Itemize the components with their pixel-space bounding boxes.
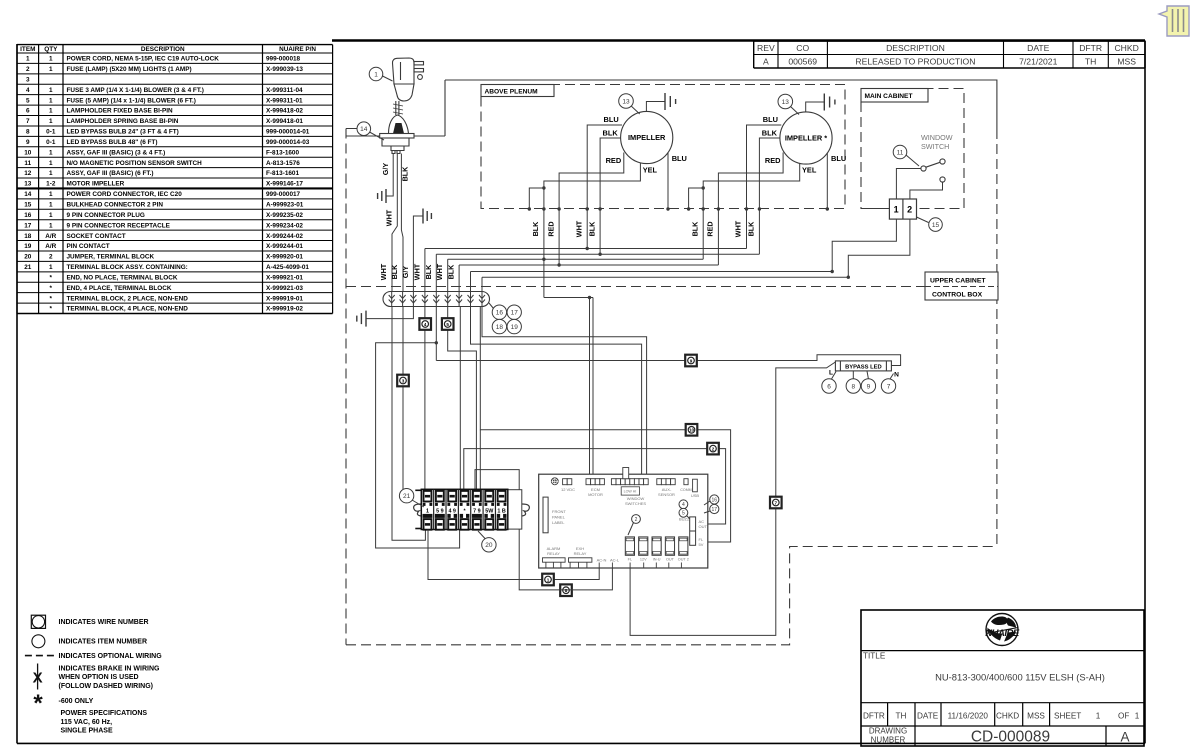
svg-text:RED: RED (706, 221, 715, 236)
svg-text:13: 13 (622, 98, 630, 105)
svg-text:INDICATES OPTIONAL WIRING: INDICATES OPTIONAL WIRING (59, 653, 163, 660)
svg-text:POWER SPECIFICATIONS: POWER SPECIFICATIONS (61, 710, 148, 717)
svg-text:1: 1 (49, 56, 53, 63)
svg-text:CONTROL BOX: CONTROL BOX (932, 292, 983, 299)
svg-text:1: 1 (49, 97, 53, 104)
svg-text:COMM: COMM (680, 488, 691, 492)
svg-text:LED BYPASS BULB 24" (3 FT & 4: LED BYPASS BULB 24" (3 FT & 4 FT) (67, 129, 179, 136)
svg-text:IN-U: IN-U (653, 558, 661, 562)
svg-text:9 PIN CONNECTOR RECEPTACLE: 9 PIN CONNECTOR RECEPTACLE (67, 222, 171, 229)
svg-text:17: 17 (24, 222, 32, 229)
svg-text:A/R: A/R (45, 233, 56, 240)
svg-text:NUAIRE P/N: NUAIRE P/N (279, 46, 316, 53)
svg-text:ITEM: ITEM (20, 46, 35, 53)
svg-text:CO: CO (796, 43, 809, 53)
svg-text:5: 5 (446, 322, 449, 327)
svg-text:BULKHEAD CONNECTOR 2 PIN: BULKHEAD CONNECTOR 2 PIN (67, 201, 164, 208)
svg-text:5: 5 (26, 97, 30, 104)
svg-text:17: 17 (511, 310, 519, 317)
svg-text:13: 13 (782, 99, 790, 106)
svg-text:NUMBER: NUMBER (871, 736, 906, 745)
svg-text:X-999039-13: X-999039-13 (266, 66, 303, 73)
svg-text:ASSY, GAF III (BASIC) (3 & 4 F: ASSY, GAF III (BASIC) (3 & 4 FT.) (67, 149, 166, 156)
svg-text:CD-000089: CD-000089 (971, 729, 1050, 746)
svg-text:1: 1 (1096, 711, 1101, 720)
svg-text:AC-N: AC-N (597, 558, 607, 563)
svg-text:OUT 2: OUT 2 (678, 558, 689, 562)
svg-text:CHKD: CHKD (996, 711, 1019, 720)
svg-text:DFTR: DFTR (863, 711, 885, 720)
svg-text:1: 1 (49, 118, 53, 125)
svg-text:2: 2 (635, 517, 638, 523)
svg-text:BLK: BLK (602, 129, 618, 138)
svg-text:A-999923-01: A-999923-01 (266, 201, 304, 208)
svg-text:N: N (894, 372, 899, 379)
svg-text:OF: OF (1118, 711, 1129, 720)
svg-text:ASSY, GAF III (BASIC) (6 FT.): ASSY, GAF III (BASIC) (6 FT.) (67, 170, 154, 177)
svg-text:1: 1 (374, 71, 378, 78)
svg-text:1: 1 (1135, 711, 1140, 720)
svg-text:6: 6 (26, 108, 30, 115)
svg-text:IMPELLER: IMPELLER (628, 133, 666, 142)
svg-text:7: 7 (887, 383, 891, 390)
svg-text:999-000017: 999-000017 (266, 191, 301, 198)
svg-text:MOTOR IMPELLER: MOTOR IMPELLER (67, 181, 125, 188)
svg-text:-600 ONLY: -600 ONLY (59, 698, 94, 705)
svg-text:1 B: 1 B (497, 508, 505, 514)
svg-text:LED BYPASS BULB 48" (6 FT): LED BYPASS BULB 48" (6 FT) (67, 139, 158, 146)
svg-text:1: 1 (49, 149, 53, 156)
svg-text:SENSOR: SENSOR (658, 492, 675, 497)
svg-text:7: 7 (26, 118, 30, 125)
svg-text:MSS: MSS (1027, 711, 1045, 720)
svg-text:11/16/2020: 11/16/2020 (948, 711, 989, 720)
svg-text:7: 7 (775, 500, 778, 505)
svg-text:USB: USB (691, 493, 700, 498)
svg-text:4: 4 (682, 502, 685, 508)
svg-text:10: 10 (24, 149, 32, 156)
svg-text:1-2: 1-2 (46, 181, 56, 188)
svg-text:SWITCH: SWITCH (921, 142, 949, 151)
svg-text:X-999919-01: X-999919-01 (266, 295, 303, 302)
svg-text:END, 4 PLACE, TERMINAL BLOCK: END, 4 PLACE, TERMINAL BLOCK (67, 285, 172, 292)
svg-text:A: A (763, 57, 769, 67)
svg-text:RED: RED (765, 156, 781, 165)
svg-text:1: 1 (26, 56, 30, 63)
svg-text:TERMINAL BLOCK, 4 PLACE, NON-E: TERMINAL BLOCK, 4 PLACE, NON-END (67, 306, 189, 313)
svg-text:X-999235-02: X-999235-02 (266, 212, 303, 219)
svg-text:LABEL: LABEL (552, 520, 565, 525)
svg-text:G/Y: G/Y (381, 163, 390, 176)
svg-text:RELAY: RELAY (547, 551, 560, 556)
svg-text:3: 3 (26, 76, 30, 83)
svg-text:POWER CORD, NEMA 5-15P, IEC C1: POWER CORD, NEMA 5-15P, IEC C19 AUTO-LOC… (67, 56, 220, 63)
svg-text:21: 21 (403, 493, 411, 500)
svg-text:3: 3 (402, 378, 405, 383)
svg-text:F-813-1600: F-813-1600 (266, 149, 299, 156)
svg-text:2: 2 (712, 447, 715, 452)
svg-text:4: 4 (424, 322, 427, 327)
svg-text:12 VDC: 12 VDC (561, 487, 575, 492)
svg-text:9: 9 (867, 383, 871, 390)
svg-text:A-425-4099-01: A-425-4099-01 (266, 264, 309, 271)
svg-text:DATE: DATE (1027, 43, 1050, 53)
svg-text:21: 21 (24, 264, 32, 271)
svg-text:11: 11 (897, 149, 904, 156)
svg-text:BLK: BLK (762, 129, 778, 138)
svg-text:RELAY: RELAY (574, 551, 587, 556)
svg-text:6: 6 (827, 383, 831, 390)
svg-text:*: * (33, 690, 43, 717)
svg-text:DATE: DATE (917, 711, 939, 720)
svg-text:POWER CORD CONNECTOR, IEC C20: POWER CORD CONNECTOR, IEC C20 (67, 191, 183, 198)
svg-text:INDICATES BRAKE IN WIRING: INDICATES BRAKE IN WIRING (59, 666, 161, 673)
svg-text:BLU: BLU (763, 115, 778, 124)
svg-text:FRONT: FRONT (552, 509, 566, 514)
svg-text:X-999311-04: X-999311-04 (266, 87, 303, 94)
svg-text:FUSE 3 AMP (1/4 X 1-1/4) BLOWE: FUSE 3 AMP (1/4 X 1-1/4) BLOWER (3 & 4 F… (67, 87, 204, 94)
svg-text:16: 16 (24, 212, 32, 219)
svg-text:WHT: WHT (384, 209, 393, 226)
svg-text:SINGLE PHASE: SINGLE PHASE (61, 728, 113, 735)
svg-text:9 PIN CONNECTOR PLUG: 9 PIN CONNECTOR PLUG (67, 212, 145, 219)
svg-text:N/O MAGNETIC POSITION SENSOR S: N/O MAGNETIC POSITION SENSOR SWITCH (67, 160, 203, 167)
svg-text:OUT: OUT (666, 558, 675, 562)
svg-text:13: 13 (24, 181, 32, 188)
svg-text:INDICATES ITEM NUMBER: INDICATES ITEM NUMBER (59, 639, 148, 646)
svg-text:BLK: BLK (390, 264, 399, 280)
svg-text:7 9: 7 9 (473, 508, 481, 514)
svg-text:8: 8 (565, 588, 568, 593)
svg-text:BYPASS LED: BYPASS LED (845, 364, 882, 370)
svg-text:F-813-1601: F-813-1601 (266, 170, 299, 177)
svg-text:G/Y: G/Y (401, 266, 410, 279)
svg-text:X: X (33, 670, 43, 687)
svg-text:18: 18 (24, 233, 32, 240)
svg-text:FUSE (LAMP) (5X20 MM) LIGHTS (: FUSE (LAMP) (5X20 MM) LIGHTS (1 AMP) (67, 66, 192, 73)
svg-text:BLK: BLK (447, 264, 456, 280)
svg-text:1: 1 (49, 66, 53, 73)
svg-text:WHT: WHT (435, 263, 444, 280)
svg-text:BLU: BLU (603, 115, 618, 124)
svg-text:WHEN OPTION IS USED: WHEN OPTION IS USED (59, 674, 139, 681)
svg-text:WHT: WHT (379, 263, 388, 280)
svg-text:NU-813-300/400/600 115V ELSH (: NU-813-300/400/600 115V ELSH (S-AH) (935, 672, 1105, 683)
svg-text:YEL: YEL (643, 166, 658, 175)
svg-text:PIN CONTACT: PIN CONTACT (67, 243, 110, 250)
svg-text:5W: 5W (485, 508, 494, 514)
svg-text:4 9: 4 9 (448, 508, 456, 514)
svg-text:15: 15 (932, 222, 940, 229)
svg-text:A-813-1576: A-813-1576 (266, 160, 300, 167)
svg-text:18: 18 (496, 324, 504, 331)
svg-text:A/R: A/R (45, 243, 56, 250)
svg-text:TERMINAL BLOCK, 2 PLACE, NON-E: TERMINAL BLOCK, 2 PLACE, NON-END (67, 295, 189, 302)
svg-text:1: 1 (49, 264, 53, 271)
svg-text:RELEASED TO PRODUCTION: RELEASED TO PRODUCTION (855, 57, 975, 67)
svg-text:1: 1 (49, 201, 53, 208)
svg-text:RED: RED (606, 156, 622, 165)
svg-text:CHKD: CHKD (1114, 43, 1138, 53)
svg-text:DFTR: DFTR (1079, 43, 1102, 53)
svg-text:8: 8 (851, 383, 855, 390)
svg-text:NUAIRE: NUAIRE (985, 628, 1020, 639)
svg-text:FUSE (5 AMP) (1/4 x 1-1/4) BLO: FUSE (5 AMP) (1/4 x 1-1/4) BLOWER (6 FT.… (67, 97, 196, 104)
svg-text:10: 10 (689, 428, 695, 433)
svg-text:0-1: 0-1 (46, 129, 56, 136)
svg-text:BLU: BLU (672, 154, 687, 163)
svg-text:X-999920-01: X-999920-01 (266, 254, 303, 261)
svg-text:FL: FL (628, 558, 632, 562)
svg-text:X-999921-03: X-999921-03 (266, 285, 303, 292)
svg-text:2: 2 (26, 66, 30, 73)
svg-text:AC-L: AC-L (610, 558, 620, 563)
svg-text:LOW HI: LOW HI (624, 490, 637, 494)
svg-text:19: 19 (511, 324, 519, 331)
svg-text:000569: 000569 (788, 57, 817, 67)
svg-text:7/21/2021: 7/21/2021 (1019, 57, 1057, 67)
svg-text:1: 1 (49, 108, 53, 115)
svg-text:14: 14 (360, 126, 368, 133)
svg-text:DESCRIPTION: DESCRIPTION (141, 46, 185, 53)
svg-text:BLK: BLK (531, 221, 540, 237)
svg-text:1: 1 (547, 577, 550, 582)
svg-text:1: 1 (49, 191, 53, 198)
svg-text:999-000014-01: 999-000014-01 (266, 129, 310, 136)
svg-text:17: 17 (712, 507, 718, 513)
svg-text:TERMINAL BLOCK ASSY. CONTAININ: TERMINAL BLOCK ASSY. CONTAINING: (67, 264, 188, 271)
svg-text:X-999146-17: X-999146-17 (266, 181, 303, 188)
svg-text:1: 1 (426, 508, 429, 514)
svg-text:MSS: MSS (1117, 57, 1136, 67)
svg-text:INDICATES WIRE NUMBER: INDICATES WIRE NUMBER (59, 619, 149, 626)
svg-text:999-000018: 999-000018 (266, 56, 301, 63)
svg-text:REV: REV (757, 43, 775, 53)
svg-text:DESCRIPTION: DESCRIPTION (886, 43, 945, 53)
svg-text:X-999921-01: X-999921-01 (266, 274, 303, 281)
svg-text:12: 12 (24, 170, 32, 177)
svg-text:WHT: WHT (734, 220, 743, 237)
svg-text:8: 8 (26, 129, 30, 136)
svg-text:11: 11 (24, 160, 31, 167)
svg-text:BLK: BLK (690, 221, 699, 237)
svg-text:20: 20 (24, 254, 32, 261)
svg-text:X-999418-01: X-999418-01 (266, 118, 303, 125)
svg-text:(FOLLOW DASHED WIRING): (FOLLOW DASHED WIRING) (59, 683, 154, 690)
svg-text:16: 16 (496, 310, 504, 317)
svg-text:115 VAC, 60 Hz,: 115 VAC, 60 Hz, (61, 719, 113, 726)
svg-text:BLK: BLK (424, 264, 433, 280)
svg-text:1: 1 (49, 170, 53, 177)
svg-text:X-999234-02: X-999234-02 (266, 222, 303, 229)
svg-text:999-000014-03: 999-000014-03 (266, 139, 310, 146)
svg-text:X-999418-02: X-999418-02 (266, 108, 303, 115)
svg-text:MOTOR: MOTOR (588, 492, 603, 497)
svg-text:QTY: QTY (44, 46, 58, 53)
svg-text:END, NO PLACE, TERMINAL BLOCK: END, NO PLACE, TERMINAL BLOCK (67, 274, 178, 281)
svg-text:A: A (1120, 730, 1129, 745)
svg-text:TITLE: TITLE (863, 652, 886, 661)
svg-text:19: 19 (24, 243, 32, 250)
svg-text:15: 15 (24, 201, 32, 208)
svg-text:LAMPHOLDER SPRING BASE BI-PIN: LAMPHOLDER SPRING BASE BI-PIN (67, 118, 179, 125)
svg-text:SHEET: SHEET (1054, 711, 1081, 720)
svg-text:1: 1 (49, 160, 53, 167)
svg-text:IMPELLER *: IMPELLER * (785, 134, 827, 143)
svg-text:TH: TH (896, 711, 907, 720)
svg-text:WHT: WHT (574, 220, 583, 237)
svg-text:5V: 5V (699, 542, 704, 547)
svg-text:TH: TH (1085, 57, 1096, 67)
svg-text:X-999244-01: X-999244-01 (266, 243, 303, 250)
svg-text:0-1: 0-1 (46, 139, 56, 146)
svg-text:DRAWING: DRAWING (869, 727, 907, 736)
svg-text:20: 20 (485, 542, 493, 549)
svg-text:1: 1 (894, 205, 899, 215)
svg-text:JUMPER, TERMINAL BLOCK: JUMPER, TERMINAL BLOCK (67, 254, 155, 261)
svg-text:SOCKET CONTACT: SOCKET CONTACT (67, 233, 126, 240)
svg-text:X-999311-01: X-999311-01 (266, 97, 303, 104)
svg-text:16: 16 (712, 497, 718, 503)
svg-text:L: L (829, 370, 833, 377)
svg-text:BLK: BLK (747, 221, 756, 237)
svg-text:MAIN CABINET: MAIN CABINET (865, 93, 913, 100)
svg-text:OUT: OUT (699, 524, 708, 529)
svg-text:RED: RED (546, 221, 555, 236)
svg-text:WINDOW: WINDOW (921, 133, 953, 142)
svg-text:ABOVE PLENUM: ABOVE PLENUM (485, 89, 539, 96)
svg-text:BLK: BLK (587, 221, 596, 237)
svg-text:9: 9 (26, 139, 30, 146)
svg-text:2: 2 (49, 254, 53, 261)
svg-text:1: 1 (49, 87, 53, 94)
svg-text:BLU: BLU (831, 154, 846, 163)
svg-text:5 9: 5 9 (436, 508, 444, 514)
svg-text:1: 1 (49, 212, 53, 219)
svg-text:YEL: YEL (802, 166, 817, 175)
svg-text:X-999244-02: X-999244-02 (266, 233, 303, 240)
svg-text:X-999919-02: X-999919-02 (266, 306, 303, 313)
svg-text:BLK: BLK (401, 166, 410, 182)
svg-text:14: 14 (24, 191, 32, 198)
svg-text:2: 2 (907, 205, 912, 215)
svg-text:UPPER CABINET: UPPER CABINET (930, 278, 986, 285)
svg-text:LAMPHOLDER FIXED BASE BI-PIN: LAMPHOLDER FIXED BASE BI-PIN (67, 108, 174, 115)
svg-text:4: 4 (26, 87, 30, 94)
svg-text:1: 1 (49, 222, 53, 229)
svg-text:9: 9 (690, 358, 693, 363)
svg-text:PANEL: PANEL (552, 515, 566, 520)
svg-text:SWITCHES: SWITCHES (625, 501, 646, 506)
svg-text:12V: 12V (640, 558, 647, 562)
